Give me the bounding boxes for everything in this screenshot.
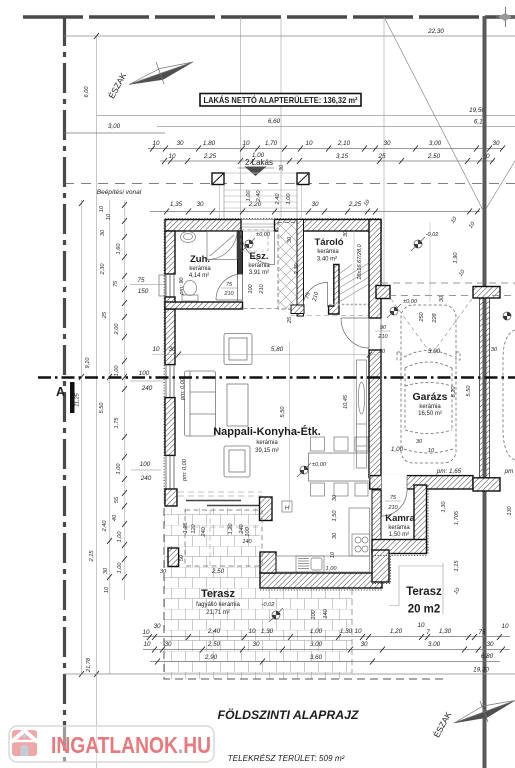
bottom dim row 1 ticks bbox=[147, 634, 502, 640]
100/240 fraction bbox=[130, 370, 163, 392]
Kamra left wall bbox=[372, 490, 381, 540]
svg-text:6,60: 6,60 bbox=[268, 118, 281, 125]
wall stub below Kamra bbox=[372, 550, 389, 582]
dining table bbox=[309, 453, 370, 481]
garage-living door labels bbox=[375, 325, 391, 340]
svg-text:90: 90 bbox=[380, 325, 387, 331]
svg-text:30: 30 bbox=[176, 140, 184, 147]
svg-text:pm: 0,00: pm: 0,00 bbox=[180, 377, 186, 401]
svg-text:30: 30 bbox=[103, 567, 109, 574]
svg-text:1,75: 1,75 bbox=[114, 417, 120, 429]
garage door dashed lines (driveway) bbox=[381, 282, 515, 284]
dim row B line y=161 bbox=[160, 160, 494, 162]
Tarolo south wall piece bbox=[291, 305, 304, 314]
svg-text:30: 30 bbox=[287, 236, 293, 243]
svg-text:2 Lakás: 2 Lakás bbox=[245, 158, 273, 167]
entry door leaf and swing bbox=[241, 231, 275, 265]
pergola inner dashed lines bbox=[185, 510, 262, 566]
svg-text:210: 210 bbox=[223, 291, 234, 297]
svg-text:40: 40 bbox=[112, 514, 118, 521]
car in garage bbox=[397, 305, 460, 463]
north arrow bottom-right bbox=[431, 701, 515, 740]
plot boundary top (dashed thick) bbox=[23, 15, 515, 18]
svg-text:1,20: 1,20 bbox=[390, 628, 403, 635]
svg-text:Garázs: Garázs bbox=[412, 391, 447, 403]
svg-text:250: 250 bbox=[419, 311, 425, 322]
svg-text:2,30: 2,30 bbox=[294, 263, 300, 276]
svg-text:1,30: 1,30 bbox=[441, 501, 447, 513]
bottom dim row 1 labels bbox=[142, 622, 509, 636]
svg-text:3,00: 3,00 bbox=[108, 123, 121, 130]
dim row B ticks bbox=[162, 158, 495, 164]
svg-text:2,50: 2,50 bbox=[211, 568, 225, 575]
left tick marks bbox=[79, 33, 127, 677]
party wall hatched strip on fence bbox=[480, 298, 490, 478]
svg-text:1,00: 1,00 bbox=[326, 566, 338, 572]
svg-text:pm: 1,65: pm: 1,65 bbox=[436, 468, 462, 475]
stair winder treads bbox=[339, 263, 369, 302]
svg-text:5,80: 5,80 bbox=[271, 346, 284, 353]
svg-text:Terasz: Terasz bbox=[406, 586, 442, 598]
svg-text:3,15: 3,15 bbox=[336, 153, 349, 160]
svg-text:1,30: 1,30 bbox=[261, 628, 274, 635]
svg-text:30: 30 bbox=[196, 201, 204, 208]
svg-text:10: 10 bbox=[152, 140, 160, 147]
wall between Zuh and Esz bbox=[238, 231, 243, 274]
svg-text:100: 100 bbox=[245, 526, 251, 536]
svg-text:75: 75 bbox=[113, 280, 119, 287]
porch columns and steps bbox=[212, 173, 309, 220]
garage dims bbox=[391, 215, 514, 475]
kitchen counter right bbox=[349, 508, 370, 556]
svg-text:1,30: 1,30 bbox=[340, 628, 353, 635]
svg-text:1,00: 1,00 bbox=[246, 190, 252, 202]
H box bbox=[282, 501, 292, 512]
level marker terrace bbox=[269, 608, 283, 622]
corner marker top-right bbox=[496, 7, 515, 27]
svg-text:10: 10 bbox=[354, 628, 362, 635]
svg-text:2,40: 2,40 bbox=[102, 520, 108, 533]
svg-text:30: 30 bbox=[153, 623, 161, 630]
stair inner wall bbox=[329, 265, 339, 315]
dining chairs upper row bbox=[311, 437, 369, 451]
right lower chain bbox=[441, 501, 513, 596]
svg-text:1,00: 1,00 bbox=[391, 446, 404, 453]
terrace tiles left part bbox=[164, 508, 352, 679]
svg-text:150: 150 bbox=[138, 288, 149, 295]
level marker driveway bbox=[411, 237, 425, 251]
dim row C line y=211.5 bbox=[150, 211, 480, 213]
svg-text:±0,00: ±0,00 bbox=[312, 462, 327, 468]
bottom dim row 2 line bbox=[143, 649, 510, 651]
label Terasz 20 m2 bbox=[406, 586, 442, 616]
svg-text:11,25: 11,25 bbox=[75, 392, 81, 406]
entry door opening lines bbox=[241, 220, 275, 232]
svg-text:10: 10 bbox=[143, 641, 151, 648]
terrace 20m2 outline lines bbox=[389, 563, 443, 614]
svg-text:10: 10 bbox=[248, 628, 256, 635]
dashed floor line below stair bbox=[290, 315, 381, 317]
svg-text:22,30: 22,30 bbox=[427, 28, 444, 35]
horizontal line y=115.5 bbox=[97, 115, 515, 117]
Kamra south wall bbox=[372, 540, 427, 554]
svg-text:2,40: 2,40 bbox=[275, 193, 281, 206]
dim row C ticks bbox=[164, 209, 480, 215]
svg-text:kerámia: kerámia bbox=[189, 266, 211, 272]
terrace dashed vertical right bbox=[351, 589, 353, 673]
top wall left of entrance bbox=[165, 220, 241, 232]
sink bbox=[296, 556, 324, 572]
svg-text:55: 55 bbox=[114, 496, 120, 503]
bottom dim row 2 ticks bbox=[152, 647, 505, 653]
svg-text:1,50 m²: 1,50 m² bbox=[389, 532, 409, 538]
north arrow top-left bbox=[106, 62, 193, 100]
level marker living bbox=[297, 463, 311, 477]
section marker A bbox=[56, 382, 75, 413]
svg-text:10: 10 bbox=[501, 623, 509, 630]
terrace dashed boundary left bbox=[164, 508, 446, 679]
room label Garazs bbox=[412, 391, 447, 417]
room label Esz bbox=[248, 251, 270, 276]
svg-text:50: 50 bbox=[179, 554, 185, 561]
svg-text:25: 25 bbox=[102, 311, 108, 319]
svg-text:pm: 0,00: pm: 0,00 bbox=[182, 458, 188, 482]
LAKAS NETTO box bbox=[200, 94, 361, 107]
fence thick vertical line bbox=[483, 16, 487, 768]
armchair lower bbox=[224, 446, 250, 477]
svg-text:Esz.: Esz. bbox=[249, 251, 268, 262]
garage door swing dashes bbox=[391, 299, 472, 351]
svg-text:100: 100 bbox=[311, 609, 317, 619]
svg-text:30: 30 bbox=[279, 164, 285, 171]
svg-text:30: 30 bbox=[164, 641, 172, 648]
100/240 fraction lower window bbox=[131, 461, 161, 482]
svg-text:25: 25 bbox=[377, 153, 386, 160]
svg-text:1,25: 1,25 bbox=[183, 522, 189, 534]
grid line vertical x=109.8 bbox=[109, 200, 111, 674]
Zuh south wall bbox=[165, 302, 243, 309]
svg-text:130: 130 bbox=[507, 505, 513, 515]
svg-text:100: 100 bbox=[140, 461, 151, 468]
svg-text:Kamra: Kamra bbox=[385, 513, 415, 524]
room label Nappali bbox=[213, 425, 321, 454]
svg-text:±0,00: ±0,00 bbox=[403, 299, 418, 305]
svg-text:TELEKRÉSZ TERÜLET: 509 m²: TELEKRÉSZ TERÜLET: 509 m² bbox=[228, 753, 345, 763]
svg-text:2,25: 2,25 bbox=[203, 153, 217, 160]
coffee table bbox=[227, 384, 248, 426]
svg-text:A: A bbox=[56, 385, 65, 399]
room label Tarolo bbox=[314, 237, 343, 263]
svg-text:19,30: 19,30 bbox=[473, 667, 489, 674]
sliding door to terrace bbox=[186, 501, 262, 506]
west wall Zuh segment bbox=[165, 231, 175, 274]
bottom dim row 1 line bbox=[143, 636, 510, 638]
chimney shaft crosshatch bbox=[278, 223, 297, 310]
svg-text:30: 30 bbox=[160, 569, 167, 575]
svg-text:5,50: 5,50 bbox=[280, 406, 286, 418]
wall between shaft and Tarolo bbox=[297, 220, 304, 317]
watermark ingatlanok.hu bbox=[9, 726, 214, 762]
svg-text:2,10: 2,10 bbox=[337, 140, 351, 147]
svg-text:30: 30 bbox=[439, 295, 445, 302]
svg-text:10: 10 bbox=[99, 205, 105, 212]
garage door opening lines bbox=[369, 318, 381, 350]
svg-text:3,00: 3,00 bbox=[428, 348, 441, 355]
Zuh door opening lines bbox=[238, 274, 243, 302]
svg-text:4,14 m²: 4,14 m² bbox=[189, 273, 209, 279]
svg-text:30: 30 bbox=[332, 494, 338, 501]
svg-text:6,20: 6,20 bbox=[451, 386, 457, 398]
armchair upper bbox=[224, 334, 252, 365]
kitchen counter bottom bbox=[276, 556, 370, 572]
svg-text:10: 10 bbox=[428, 448, 435, 454]
svg-text:30: 30 bbox=[491, 347, 498, 353]
svg-text:10: 10 bbox=[104, 586, 110, 593]
svg-text:30: 30 bbox=[360, 641, 368, 648]
svg-text:120: 120 bbox=[191, 523, 197, 533]
east wall lower bbox=[369, 350, 381, 478]
shower in Zuh bbox=[207, 232, 237, 260]
svg-text:10: 10 bbox=[330, 551, 336, 558]
svg-text:fagyálló kerámia: fagyálló kerámia bbox=[196, 602, 240, 608]
svg-text:kerámia: kerámia bbox=[256, 440, 278, 446]
horizontal line y=36 bbox=[64, 35, 515, 37]
svg-text:LAKÁS NETTÓ ALAPTERÜLETE: 136,: LAKÁS NETTÓ ALAPTERÜLETE: 136,32 m² bbox=[204, 94, 358, 105]
svg-text:39,15 m²: 39,15 m² bbox=[255, 448, 279, 454]
plot boundary left (dash-dot thick vertical) bbox=[63, 16, 66, 768]
svg-text:pm: 90: pm: 90 bbox=[179, 277, 185, 296]
pillar at sliding door end bbox=[260, 497, 273, 521]
svg-text:1,60: 1,60 bbox=[116, 243, 122, 255]
garage south wall fence block bbox=[473, 478, 500, 491]
Kamra door fraction bbox=[385, 495, 401, 511]
svg-text:3,91 m²: 3,91 m² bbox=[249, 270, 269, 276]
svg-text:INGATLANOK.HU: INGATLANOK.HU bbox=[51, 732, 211, 758]
grid line vertical x=281 bbox=[280, 17, 282, 219]
garage north wall right block at fence bbox=[473, 287, 500, 299]
pergola dashed rect bbox=[185, 510, 262, 566]
pergola dims bbox=[160, 522, 253, 575]
svg-text:6,00: 6,00 bbox=[84, 86, 90, 98]
svg-text:20 m2: 20 m2 bbox=[408, 604, 441, 616]
dim line 3,00 top-left bbox=[64, 132, 165, 134]
neighbour level marker bbox=[503, 312, 511, 320]
svg-text:5,50: 5,50 bbox=[99, 402, 105, 414]
room label Terasz bbox=[196, 588, 240, 616]
kitchen south wall bbox=[260, 573, 382, 588]
svg-text:210: 210 bbox=[377, 334, 388, 340]
svg-text:140: 140 bbox=[323, 608, 329, 618]
toilet in Zuh bbox=[182, 281, 198, 302]
bottom line y=674 bbox=[64, 673, 515, 675]
grid line vertical x=240.4 bbox=[239, 17, 241, 219]
left rotated dim labels bbox=[75, 86, 124, 673]
svg-text:210: 210 bbox=[387, 505, 398, 511]
svg-text:Nappali-Konyha-Étk.: Nappali-Konyha-Étk. bbox=[213, 425, 321, 438]
svg-text:75: 75 bbox=[478, 629, 486, 636]
svg-text:Terasz: Terasz bbox=[201, 588, 236, 600]
dining chairs lower row bbox=[311, 483, 369, 496]
svg-text:75: 75 bbox=[390, 495, 397, 501]
stove bbox=[352, 534, 370, 556]
svg-text:kerámia: kerámia bbox=[419, 404, 441, 410]
Zuh door fraction 75/210 bbox=[221, 282, 237, 297]
svg-text:2,30: 2,30 bbox=[100, 263, 106, 276]
grid line vertical x=96.5 bbox=[96, 36, 98, 768]
svg-text:2,90: 2,90 bbox=[204, 654, 218, 661]
svg-text:30: 30 bbox=[100, 229, 106, 236]
svg-text:1,50: 1,50 bbox=[332, 510, 338, 522]
svg-text:3,00: 3,00 bbox=[310, 641, 323, 648]
svg-text:21,71 m²: 21,71 m² bbox=[206, 610, 230, 616]
bottom dim row 3 ticks bbox=[155, 659, 375, 665]
sofa bbox=[185, 371, 216, 436]
level marker Esz bbox=[243, 238, 255, 250]
svg-text:10,45: 10,45 bbox=[343, 394, 349, 409]
svg-text:1,00: 1,00 bbox=[310, 628, 323, 635]
svg-text:240: 240 bbox=[201, 526, 207, 537]
svg-text:-0,02: -0,02 bbox=[426, 232, 440, 238]
svg-text:30: 30 bbox=[416, 439, 423, 445]
svg-text:1,00: 1,00 bbox=[114, 365, 120, 377]
svg-text:18x16,67/28,0: 18x16,67/28,0 bbox=[357, 243, 363, 279]
svg-text:30: 30 bbox=[343, 230, 349, 237]
svg-text:30: 30 bbox=[492, 140, 500, 147]
svg-text:228: 228 bbox=[432, 312, 438, 323]
svg-text:2,50: 2,50 bbox=[427, 153, 441, 160]
Kamra door leaf and swing bbox=[382, 490, 408, 516]
svg-text:2,15: 2,15 bbox=[89, 550, 95, 563]
room label Zuh bbox=[189, 254, 212, 279]
section line A-A bbox=[38, 376, 515, 379]
svg-text:2,40: 2,40 bbox=[207, 628, 221, 635]
svg-text:30: 30 bbox=[168, 346, 176, 353]
Kamra door gap in garage south wall bbox=[382, 475, 408, 490]
svg-text:H: H bbox=[285, 506, 289, 512]
dim row A line y=148.5 bbox=[148, 148, 503, 150]
svg-text:9,10: 9,10 bbox=[85, 357, 91, 369]
svg-text:6,80: 6,80 bbox=[481, 653, 494, 660]
west wall living mid bbox=[165, 398, 175, 456]
svg-text:kerámia: kerámia bbox=[388, 525, 410, 531]
Tarolo door leaf and swing bbox=[303, 282, 328, 307]
east wall upper (Tarolo/garage) bbox=[369, 220, 381, 319]
svg-text:Tároló: Tároló bbox=[314, 237, 343, 248]
garage-living door leaf and swing bbox=[341, 318, 369, 348]
top dim labels bbox=[108, 28, 500, 208]
overhang dashed lines above sliding door bbox=[178, 492, 262, 496]
svg-text:1,00: 1,00 bbox=[117, 562, 123, 574]
Esz closet dashed bbox=[241, 230, 268, 252]
svg-text:10: 10 bbox=[142, 629, 150, 636]
svg-text:-0,02: -0,02 bbox=[262, 602, 276, 608]
svg-text:Zuh.: Zuh. bbox=[190, 254, 210, 265]
svg-text:1,30: 1,30 bbox=[439, 628, 452, 635]
svg-text:1,80: 1,80 bbox=[203, 140, 216, 147]
svg-text:1,35: 1,35 bbox=[170, 201, 183, 208]
grid line vertical x=81.6 bbox=[81, 200, 83, 674]
svg-text:240: 240 bbox=[140, 475, 152, 482]
svg-text:10: 10 bbox=[152, 346, 160, 353]
diagonal line A from top to fence point bbox=[384, 17, 484, 212]
insulation dotted edges bbox=[260, 485, 428, 590]
svg-text:10: 10 bbox=[168, 153, 176, 160]
svg-text:30: 30 bbox=[486, 641, 494, 648]
living window 2 bbox=[166, 455, 174, 489]
washbasin in Zuh bbox=[181, 232, 196, 243]
bottom dim row 3 line bbox=[150, 661, 500, 663]
horizontal line y=126.5 bbox=[157, 126, 515, 128]
level marker garage bbox=[387, 304, 401, 318]
diagonal line B right bbox=[484, 161, 515, 212]
2 Lakas entrance label bbox=[238, 158, 285, 176]
svg-text:1,70: 1,70 bbox=[265, 140, 278, 147]
room label Kamra bbox=[385, 513, 415, 538]
dim line vertical x=289.5 living bbox=[289, 342, 291, 508]
svg-text:Beépítési vonal: Beépítési vonal bbox=[97, 189, 142, 196]
garage north wall left block bbox=[376, 286, 390, 299]
Zuh door leaf and swing bbox=[216, 274, 243, 300]
svg-text:pm: pm bbox=[504, 468, 514, 475]
svg-text:1,00: 1,00 bbox=[116, 463, 122, 475]
svg-text:10: 10 bbox=[242, 140, 250, 147]
svg-text:21,78: 21,78 bbox=[86, 657, 92, 673]
svg-text:30: 30 bbox=[252, 641, 260, 648]
svg-text:FÖLDSZINTI ALAPRAJZ: FÖLDSZINTI ALAPRAJZ bbox=[218, 707, 359, 722]
svg-text:140: 140 bbox=[242, 539, 252, 545]
svg-text:10: 10 bbox=[106, 213, 112, 220]
terrace column bbox=[168, 548, 179, 567]
svg-text:5,50: 5,50 bbox=[466, 385, 472, 397]
garage south wall bbox=[370, 476, 473, 489]
svg-text:100: 100 bbox=[248, 283, 254, 293]
insulation dots top and left walls bbox=[164, 219, 381, 505]
svg-text:1,20: 1,20 bbox=[228, 523, 234, 535]
svg-text:30: 30 bbox=[332, 532, 338, 539]
svg-text:30: 30 bbox=[383, 140, 391, 147]
svg-text:240: 240 bbox=[141, 385, 153, 392]
75/150 fraction bbox=[130, 277, 163, 295]
svg-text:kerámia: kerámia bbox=[317, 249, 339, 255]
svg-text:25: 25 bbox=[287, 316, 293, 324]
svg-text:30: 30 bbox=[379, 349, 386, 355]
living window 1 bbox=[166, 365, 174, 398]
svg-text:±0,00: ±0,00 bbox=[256, 232, 271, 238]
west wall segment below Zuh window bbox=[165, 297, 175, 309]
svg-text:3,00: 3,00 bbox=[429, 140, 442, 147]
svg-text:2,25: 2,25 bbox=[348, 201, 362, 208]
neighbour car partial bbox=[503, 330, 515, 460]
svg-text:16,50 m²: 16,50 m² bbox=[418, 411, 442, 417]
svg-text:3,00: 3,00 bbox=[428, 641, 441, 648]
svg-text:1,00: 1,00 bbox=[286, 193, 292, 205]
west wall living upper bbox=[165, 309, 175, 365]
dim line vertical x=354 bbox=[353, 230, 355, 471]
bottom dim row 3 labels bbox=[204, 653, 494, 661]
Kamra east wall bbox=[414, 485, 427, 552]
Esz bottom dashed opening bbox=[243, 308, 279, 310]
svg-text:100: 100 bbox=[139, 370, 150, 377]
svg-text:1,705: 1,705 bbox=[454, 510, 460, 525]
svg-text:75: 75 bbox=[137, 277, 145, 284]
TV cabinet on east wall bbox=[357, 360, 367, 468]
svg-text:2,50: 2,50 bbox=[207, 641, 221, 648]
svg-text:2,00: 2,00 bbox=[114, 323, 120, 336]
svg-text:210: 210 bbox=[259, 283, 265, 294]
kitchen south wall stub bbox=[260, 552, 276, 573]
dim row A ticks bbox=[150, 146, 505, 152]
svg-text:10: 10 bbox=[417, 622, 425, 629]
